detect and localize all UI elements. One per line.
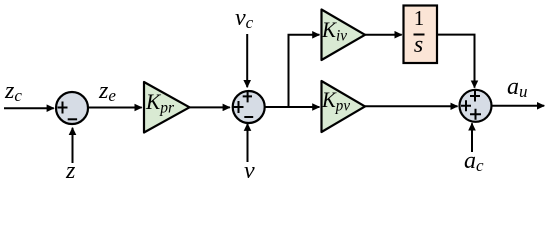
summing junction S1 xyxy=(56,92,88,124)
summing junction S3 xyxy=(460,90,492,122)
integrator fraction bar xyxy=(414,34,425,36)
gain Kiv xyxy=(322,10,366,61)
wire Kpr to S2 xyxy=(190,106,230,108)
svg-text:1: 1 xyxy=(414,6,425,30)
integrator 1/s block xyxy=(404,6,438,64)
svg-text:au: au xyxy=(507,74,528,101)
S2 plus sign top xyxy=(243,90,252,102)
svg-text:z: z xyxy=(65,158,76,180)
S1 plus sign xyxy=(58,102,68,114)
wire branch up to Kiv xyxy=(289,35,320,107)
wire zc input arrow xyxy=(4,107,54,109)
wire vc input arrow xyxy=(246,34,248,87)
S2 plus sign left xyxy=(234,101,244,113)
wire S2 to Kpv xyxy=(265,106,319,108)
wire S1 to Kpr xyxy=(88,107,142,109)
S3 plus sign top xyxy=(470,91,480,102)
wire Kpv to S3 xyxy=(365,105,458,107)
svg-text:Kpr: Kpr xyxy=(145,89,175,117)
svg-text:vc: vc xyxy=(235,5,254,32)
svg-text:s: s xyxy=(414,32,423,58)
wire output a_u xyxy=(492,105,544,107)
svg-text:ze: ze xyxy=(98,78,116,105)
summing junction S2 xyxy=(233,91,265,123)
wire v input arrow xyxy=(247,124,249,162)
wire integrator to S3 xyxy=(437,35,475,88)
wire Kiv to integrator xyxy=(365,34,402,36)
svg-text:zc: zc xyxy=(4,78,22,105)
wire ac input arrow xyxy=(471,123,473,152)
gain Kpr xyxy=(144,82,190,133)
svg-text:ac: ac xyxy=(464,148,484,175)
svg-text:v: v xyxy=(244,158,255,180)
S3 plus sign left xyxy=(461,100,471,111)
gain Kpv xyxy=(322,81,366,132)
svg-text:Kiv: Kiv xyxy=(321,17,348,45)
S1 minus sign xyxy=(68,118,77,120)
S2 minus sign xyxy=(244,116,253,118)
S3 plus sign bottom xyxy=(470,109,481,120)
wire z input arrow xyxy=(72,128,74,163)
